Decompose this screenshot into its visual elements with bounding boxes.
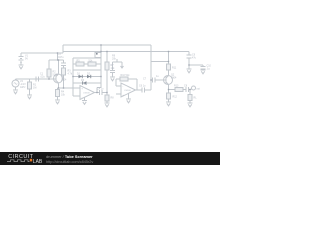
jog to output [97,87,101,89]
wire: VB line [151,61,169,63]
wire: VB out branch [189,64,203,66]
resistor R8 [105,95,109,101]
svg-text:C4 1u: C4 1u [97,87,104,90]
ground (U2) [126,94,131,103]
pot wiper arrow [121,66,124,68]
svg-text:LM308: LM308 [83,93,90,95]
svg-text:9V: 9V [25,58,28,61]
capacitor C6 [142,88,145,93]
wire: op-amp1 output row [95,92,100,94]
svg-text:LAB: LAB [33,159,43,165]
svg-text:.02u: .02u [40,76,45,79]
svg-text:R12: R12 [173,95,178,98]
svg-text:4.7k: 4.7k [68,73,73,76]
svg-text:R10 51k: R10 51k [121,74,131,77]
capacitor C5 (pot leg) [110,71,115,73]
svg-text:3904: 3904 [171,77,177,80]
wire: divider vertical [106,52,108,63]
fb box left vertical [72,58,74,96]
fb box right vertical [100,45,102,88]
wire: riser to base line [150,45,152,90]
V2 source stub [15,79,17,80]
svg-text:C6 1u: C6 1u [139,84,146,87]
resistor RL [188,95,192,101]
wire: Q1 collector [58,60,60,74]
logo waveform [7,160,30,162]
wire: op-amp2 plus stub [116,93,121,95]
svg-text:-: - [82,95,83,99]
ground (C9) [187,69,192,73]
ground (V1) [19,65,24,69]
resistor R1 [28,82,32,89]
logo LAB [30,159,32,162]
resistor R10 fb [120,77,128,81]
svg-text:R13: R13 [174,84,179,87]
resistor R12 emitter [167,93,171,99]
wire: Q2 emitter R chain [168,90,170,94]
wire: R2 stubs [48,60,50,69]
capacitor C8 out [186,87,189,92]
wire: emitter row to op-amp1 [58,87,81,89]
wire: left riser [62,45,64,53]
capacitor C4 [100,90,103,95]
ground (RL) [188,103,193,107]
wire: right cap drop [188,52,190,56]
diode D3 [82,81,86,84]
wire: Q2 base line [151,79,152,81]
svg-text:3904: 3904 [61,79,67,82]
svg-text:47u: 47u [192,56,197,59]
wire: emitter R chain [57,88,59,90]
svg-text:drummer / Tube Screamer: drummer / Tube Screamer [46,154,93,159]
wire: bias riser [57,53,59,60]
wire: top route line [63,44,151,46]
ground (R4) [55,100,60,104]
ground (U1) [82,98,87,105]
op-amp U2 [121,83,136,97]
wire: op-amp2 output [136,89,142,91]
wire: output row [169,89,176,91]
bottom bar [0,152,220,165]
wire: bias row [49,59,64,61]
R1 stubs [29,79,31,82]
capacitor C1 [36,77,39,82]
ground (C10) [201,70,206,74]
capacitor C7 base [153,78,156,83]
svg-text:R11: R11 [172,66,177,69]
wire: +9V rail [63,51,189,53]
source V2 [12,80,19,87]
capacitor C9 rail [187,55,192,58]
ground (R1) [27,95,32,99]
resistor R11 collector [167,64,171,70]
resistor R7 [105,62,109,70]
fb box mid wire [73,63,76,65]
resistor R3 [62,68,66,75]
diode D1 [79,75,83,78]
junction dots [48,44,190,93]
wire: out load chain [189,90,191,95]
resistor R2 [47,69,51,77]
V1 battery stubs [20,53,22,56]
diode D2 [87,75,91,78]
diode row 2 [73,82,101,84]
fb box bottom wire [73,69,101,71]
node out flag [190,86,196,90]
wire: op-amp1 minus input [73,95,80,97]
resistor R5 [76,62,84,66]
pot structure [116,59,118,62]
resistor R4 emitter [56,90,60,97]
small box top right [95,53,101,58]
diode row 1 [73,76,101,78]
svg-text:1kHz: 1kHz [20,86,26,89]
svg-text:1M: 1M [33,87,36,90]
svg-text:out: out [197,87,201,90]
fb box outer rect top [73,57,101,59]
ground (R12) [166,102,171,106]
wire: op-amp2 feedback [116,78,137,80]
battery V1 [19,57,24,63]
ground (V2) [13,90,18,94]
svg-text:.047u: .047u [58,56,65,59]
svg-text:510k: 510k [53,74,59,77]
ground (pot) [110,77,115,81]
transistor Q1 [54,74,63,83]
wire: C3 chain vertical [63,60,65,63]
resistor R6 [88,62,96,66]
svg-text:-: - [122,85,123,89]
transistor Q2 [164,76,173,85]
wire: Q1 emitter [58,84,60,89]
ground (R8) [105,103,110,107]
wire: V1 feed [21,52,63,54]
svg-text:LM308: LM308 [124,90,131,92]
op-amp U1 [80,86,95,100]
resistor R13 series out [175,88,183,92]
wire: Q2 emitter [168,85,170,90]
capacitor C3 [61,63,66,66]
capacitor C10 vb [201,67,206,70]
wire: input signal line [16,78,57,80]
wire: Q2 collector [168,52,170,65]
labels (tiny text) [20,53,212,100]
svg-text:http://circuitlab.com/c845r2v: http://circuitlab.com/c845r2v [46,160,93,164]
